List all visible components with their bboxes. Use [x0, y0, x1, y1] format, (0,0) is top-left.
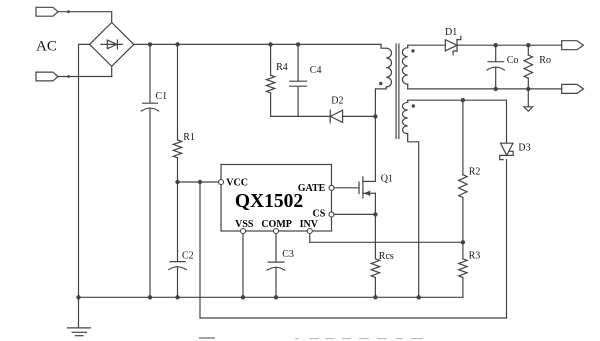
resistor Ro — [527, 45, 529, 55]
svg-text:VSS: VSS — [235, 219, 254, 230]
resistor Rcs — [374, 214, 376, 258]
connector J1 (AC input top) — [36, 7, 58, 16]
svg-text:R1: R1 — [183, 132, 195, 143]
caption fragment — [199, 337, 215, 339]
wire (INV) — [310, 231, 463, 242]
wire — [457, 44, 562, 46]
pin COMP — [274, 229, 279, 234]
svg-text:C3: C3 — [282, 249, 294, 260]
svg-text:C1: C1 — [156, 91, 168, 102]
svg-text:C4: C4 — [310, 65, 322, 76]
svg-text:Co: Co — [507, 55, 519, 66]
svg-text:C2: C2 — [182, 251, 194, 262]
svg-text:R4: R4 — [276, 62, 288, 73]
diode D2 — [329, 110, 331, 122]
ground (output) — [527, 89, 529, 107]
svg-text:VCC: VCC — [226, 177, 248, 188]
wire (GATE) — [332, 187, 360, 189]
svg-text:D1: D1 — [445, 27, 457, 38]
pin GATE — [329, 185, 334, 190]
svg-text:CS: CS — [313, 208, 326, 219]
pin VCC — [219, 180, 224, 185]
wire (ground rail) — [79, 296, 463, 298]
capacitor C4 — [297, 44, 299, 80]
wire — [343, 115, 376, 117]
wire (VSS) — [242, 231, 244, 297]
svg-text:INV: INV — [300, 219, 319, 230]
resistor R4 — [270, 44, 272, 75]
wire — [58, 12, 112, 23]
svg-text:QX1502: QX1502 — [235, 191, 303, 212]
resistor R3 — [459, 259, 467, 278]
capacitor C2 — [177, 182, 179, 261]
zener diode D3 — [501, 143, 514, 155]
wire — [58, 76, 112, 78]
wire — [271, 115, 331, 117]
resistor R2 — [462, 100, 464, 175]
transistor Q1 — [358, 182, 360, 194]
pin end dots — [67, 10, 70, 13]
ground — [78, 297, 80, 328]
wire (aux winding top) — [408, 100, 507, 143]
transformer T1 primary winding — [381, 44, 386, 48]
junction dots — [148, 42, 152, 46]
wire — [111, 66, 113, 76]
wire (secondary top) — [408, 44, 446, 46]
pin INV — [307, 229, 312, 234]
wire (secondary return) — [408, 88, 562, 90]
svg-text:GATE: GATE — [298, 183, 326, 194]
pin CS — [329, 212, 334, 217]
wire (VCC to D3 bottom loop) — [200, 160, 507, 318]
connector J3 (output +) — [562, 41, 584, 50]
svg-text:Ro: Ro — [539, 55, 551, 66]
connector J4 (output -) — [562, 84, 584, 93]
op-amp U1 QX1502 controller — [221, 165, 332, 232]
svg-text:Q1: Q1 — [381, 174, 393, 185]
wire (CS) — [332, 213, 376, 215]
transistor Q1 source arrow — [364, 191, 370, 196]
svg-text:R2: R2 — [469, 166, 481, 177]
svg-text:D3: D3 — [518, 142, 530, 153]
wire (rectified DC rail) — [134, 43, 381, 45]
svg-text:D2: D2 — [331, 95, 343, 106]
ground (output, open triangle) — [524, 107, 533, 111]
svg-text:R3: R3 — [469, 251, 481, 262]
svg-text:COMP: COMP — [261, 219, 292, 230]
caption fragments — [295, 338, 299, 340]
svg-text:Rcs: Rcs — [379, 251, 394, 262]
capacitor C1 — [149, 44, 151, 102]
transformer auxiliary winding — [407, 100, 409, 102]
resistor R1 — [177, 44, 179, 140]
capacitor C3 — [275, 231, 277, 262]
wire (VCC node) — [178, 181, 222, 183]
diode D1 — [445, 40, 457, 51]
wire (source to CS) — [374, 193, 376, 214]
bridge rectifier BR1 — [90, 23, 134, 67]
connector J2 (AC input bottom) — [36, 72, 58, 81]
wire — [79, 44, 90, 297]
capacitor Co — [495, 45, 497, 61]
transformer phase dots — [379, 82, 382, 85]
pin VSS — [241, 229, 246, 234]
svg-text:AC: AC — [36, 39, 57, 55]
transformer secondary winding — [407, 45, 409, 48]
transformer core — [395, 44, 397, 139]
